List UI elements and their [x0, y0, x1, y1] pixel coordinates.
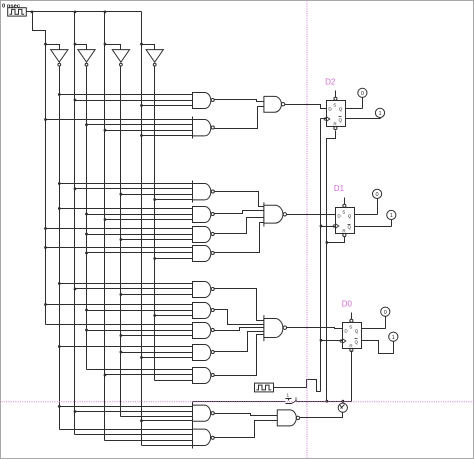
- wire D1.Qbar: [355, 226, 392, 228]
- nand gate GB: [193, 429, 215, 445]
- wire G4 input 3 from phase3: [105, 219, 193, 221]
- inverter U1: [51, 50, 68, 66]
- wire G4 out to G13: [215, 211, 264, 214]
- junction reset net bottom: [326, 400, 329, 403]
- clock generator CLK1: [8, 8, 27, 16]
- junction rail at x104.5: [104, 11, 107, 14]
- nand gate G11: [193, 368, 215, 384]
- wire G11 input 2 from phase3: [105, 374, 193, 376]
- nand gate G8: [193, 303, 215, 319]
- nand gate G5: [193, 227, 215, 243]
- junction G1 input 3: [140, 104, 143, 107]
- inverter U4: [146, 50, 163, 66]
- nand gate GA: [193, 405, 215, 421]
- wire G14 out to D0.D: [287, 328, 343, 329]
- wire D1.Q: [355, 214, 378, 216]
- wire D2.Qbar: [346, 118, 381, 120]
- junction G4 input 1: [58, 207, 61, 210]
- wire G7 input 2 from phase2: [75, 288, 193, 290]
- junction G8 input 3: [153, 314, 156, 317]
- junction G11 input 2: [104, 374, 107, 377]
- junction G3 input 2: [74, 187, 77, 190]
- wire G6 input 3 from phase4 inverted: [155, 258, 193, 260]
- wire G10 input 3 from phase4: [142, 357, 193, 359]
- junction G3 input 1: [58, 182, 61, 185]
- wire switch drop to GB: [192, 402, 194, 449]
- wire G3 input 2 from phase2: [75, 188, 193, 190]
- junction G6 input 3: [153, 257, 156, 260]
- svg-text:Q: Q: [355, 339, 359, 344]
- wire D0 clock tap: [321, 340, 343, 342]
- probe P2 value 1: [375, 108, 384, 117]
- junction G4 input 2: [85, 213, 88, 216]
- junction G2 input 2: [85, 123, 88, 126]
- svg-text:0: 0: [295, 397, 298, 402]
- junction clock net D1: [320, 225, 323, 228]
- nand gate G9: [193, 323, 215, 339]
- junction G3 input 4: [153, 198, 156, 201]
- inverter U3: [112, 50, 129, 66]
- wire D2.Q: [346, 108, 363, 110]
- wire bus phase4: [141, 45, 143, 446]
- wire G3 input 4 from phase4 inverted: [155, 199, 193, 201]
- wire G11 input 1 from phase2 inverted: [87, 369, 193, 371]
- inverter U2: [78, 50, 95, 66]
- wire drop phase3: [104, 12, 106, 45]
- junction G4 input 3: [104, 218, 107, 221]
- junction G7 input 2: [74, 288, 77, 291]
- wire G9 input 3 from phase3 inverted: [121, 335, 193, 337]
- wire probe P1 stem: [362, 98, 364, 109]
- wire G9 input 2 from phase2 inverted: [87, 330, 193, 332]
- junction G7 input 1: [58, 282, 61, 285]
- svg-text:Q: Q: [348, 213, 352, 218]
- wire D0.Q: [362, 328, 386, 330]
- wire D0.Qbar: [362, 341, 394, 354]
- nand gate G12: [264, 96, 285, 112]
- wire G3 out to G13: [215, 192, 264, 207]
- junction G5 input 1: [44, 227, 47, 230]
- junction G5 input 3: [120, 238, 123, 241]
- wire G1 input 1 from phase1 inverted: [60, 94, 193, 96]
- wire G10 input 2 from phase3 inverted: [121, 352, 193, 354]
- wire clock net vertical: [320, 119, 322, 392]
- wire probe P4 stem: [391, 220, 393, 227]
- wire bus phase2 inverted: [86, 67, 88, 370]
- label 0 nsec: [2, 4, 21, 10]
- wire G2 input 3 from phase3: [105, 130, 193, 132]
- wire G6 out to G13: [215, 223, 264, 253]
- wire CLK2 to clock net: [274, 380, 321, 392]
- wire G1 input 2 from phase2: [75, 100, 193, 102]
- nand gate G3: [193, 181, 215, 203]
- nand gate G14: [264, 315, 287, 341]
- svg-text:S: S: [342, 209, 345, 214]
- label D1: [334, 184, 345, 193]
- wire G9 input 1 from phase1: [46, 324, 193, 326]
- wire G2 input 2 from phase2 inverted: [87, 124, 193, 126]
- junction stub phase1: [44, 43, 47, 46]
- junction stub phase2: [74, 43, 77, 46]
- svg-text:S: S: [333, 102, 336, 107]
- wire bus phase3 inverted: [120, 67, 122, 417]
- wire D1 reset tap: [327, 237, 345, 243]
- junction G3 input 3: [120, 193, 123, 196]
- wire G6 input 1 from phase1: [46, 247, 193, 249]
- wire GB input 4 from phase4: [142, 445, 193, 447]
- flip-flop D0: [340, 313, 361, 352]
- wire GA input 2 from phase2: [75, 411, 193, 413]
- junction G2 input 4: [140, 134, 143, 137]
- junction G1 input 1: [58, 93, 61, 96]
- wire G4 input 2 from phase2 inverted: [87, 214, 193, 216]
- page break vertical: [306, 2, 308, 459]
- svg-text:1: 1: [378, 111, 381, 117]
- wire stub to inverter U1: [46, 45, 60, 50]
- junction stub phase3: [104, 43, 107, 46]
- junction G10 input 3: [140, 356, 143, 359]
- junction rail at x74.5: [74, 11, 77, 14]
- wire G9 out to G14: [215, 328, 264, 331]
- wire probe P3 stem: [377, 199, 379, 215]
- nand gate G6: [193, 246, 215, 262]
- wire drop phase4: [141, 12, 143, 45]
- wire bus phase2: [74, 45, 76, 435]
- wire G13 out to D1.D: [287, 214, 336, 216]
- wire GC out to probe: [300, 413, 343, 418]
- wire G10 input 1 from phase1 inverted: [60, 346, 193, 348]
- wire G12 out to D2.D: [285, 105, 327, 109]
- junction G6 input 2: [85, 252, 88, 255]
- wire D1 clock tap: [321, 226, 336, 228]
- junction G2 input 1: [44, 118, 47, 121]
- switch SW1: [286, 392, 298, 403]
- junction G2 input 3: [104, 129, 107, 132]
- svg-text:D1: D1: [334, 184, 345, 193]
- wire probe P5 stem: [385, 317, 387, 329]
- wire bus phase3: [104, 45, 106, 441]
- wire staircase drop phase1: [33, 12, 46, 45]
- junction stub phase4: [140, 43, 143, 46]
- junction probe P7: [342, 400, 345, 403]
- wire G6 input 2 from phase2 inverted: [87, 252, 193, 254]
- junction reset net D1: [326, 241, 329, 244]
- label D0: [342, 299, 353, 308]
- page break horizontal: [2, 401, 474, 403]
- svg-text:0: 0: [376, 192, 379, 198]
- wire G3 input 1 from phase1 inverted: [60, 183, 193, 185]
- wire clock rail: [33, 11, 142, 13]
- junction G10 input 1: [58, 345, 61, 348]
- wire G5 input 3 from phase3 inverted: [121, 239, 193, 241]
- junction GA input 4: [140, 419, 143, 422]
- wire G1 out to G12: [215, 100, 264, 102]
- wire G4 input 1 from phase1 inverted: [60, 208, 193, 210]
- wire G2 input 4 from phase4: [142, 135, 193, 137]
- wire G8 out to G14: [215, 310, 264, 325]
- junction G1 input 2: [74, 99, 77, 102]
- junction G9 input 2: [85, 329, 88, 332]
- wire CLK1 output: [27, 11, 33, 13]
- nand gate G4: [193, 207, 215, 223]
- wire G8 input 1 from phase1: [46, 304, 193, 306]
- wire bus phase4 inverted: [154, 67, 156, 381]
- wire GB out to GC: [215, 421, 278, 438]
- nand gate G7: [193, 282, 215, 298]
- wire G5 input 1 from phase1: [46, 228, 193, 230]
- probe P5 value 0: [381, 307, 390, 316]
- wire GB input 1 from phase1 inverted: [60, 429, 193, 431]
- junction GA input 1: [58, 405, 61, 408]
- wire GB input 2 from phase2: [75, 434, 193, 436]
- wire GB input 3 from phase3: [105, 440, 193, 442]
- svg-text:1: 1: [287, 392, 290, 397]
- wire G7 input 3 from phase3 inverted: [121, 294, 193, 296]
- flip-flop D1: [333, 198, 354, 237]
- wire G2 out to G12: [215, 107, 264, 129]
- wire stub to inverter U4: [142, 45, 155, 50]
- wire bus phase1: [45, 45, 47, 325]
- svg-text:1: 1: [392, 335, 395, 341]
- probe P7 needle: [338, 403, 347, 412]
- nand gate G10: [193, 345, 215, 361]
- svg-text:1: 1: [390, 213, 393, 219]
- wire G2 input 1 from phase1: [46, 119, 193, 121]
- wire stub to inverter U3: [105, 45, 121, 50]
- wire G1 input 3 from phase4: [142, 105, 193, 107]
- probe P3 value 0: [373, 189, 382, 198]
- nand gate G13: [264, 202, 287, 226]
- wire probe P7 stub: [342, 402, 344, 404]
- junction G10 input 2: [120, 351, 123, 354]
- junction G5 input 2: [85, 233, 88, 236]
- wire G5 out to G13: [215, 218, 264, 234]
- wire G11 input 3 from phase4 inverted: [155, 380, 193, 382]
- svg-text:D0: D0: [342, 299, 353, 308]
- wire G8 input 2 from phase2 inverted: [87, 310, 193, 312]
- wire bus phase1 inverted: [59, 67, 61, 430]
- wire GA out to GC: [215, 414, 278, 416]
- junction rail at x31.5: [31, 11, 34, 14]
- junction G8 input 1: [44, 303, 47, 306]
- wire G3 input 3 from phase3 inverted: [121, 194, 193, 196]
- probe P4 value 1: [387, 210, 396, 219]
- wire stub to inverter U2: [75, 45, 87, 50]
- wire GA input 4 from phase4: [142, 420, 193, 422]
- wire G8 input 3 from phase4 inverted: [155, 315, 193, 317]
- nand gate G2: [193, 117, 215, 139]
- nand gate GC: [277, 410, 299, 426]
- probe P6 value 1: [389, 332, 398, 341]
- wire reset to GB branch: [193, 401, 286, 403]
- wire G5 input 2 from phase2 inverted: [87, 234, 193, 236]
- wire G7 input 1 from phase1 inverted: [60, 283, 193, 285]
- wire G11 out to G14: [215, 335, 264, 376]
- flip-flop D2: [324, 91, 345, 130]
- svg-text:Q: Q: [339, 117, 343, 122]
- junction GA input 2: [74, 410, 77, 413]
- wire probe P2 stem: [380, 118, 382, 119]
- wire D2 reset run: [327, 131, 336, 402]
- junction G6 input 1: [44, 246, 47, 249]
- wire GA input 3 from phase3 inverted: [121, 416, 193, 418]
- clock generator CLK2: [255, 383, 274, 392]
- probe P1 value 0: [358, 88, 367, 97]
- svg-text:0: 0: [384, 310, 387, 316]
- svg-text:0: 0: [361, 91, 364, 97]
- wire D0 reset drop: [351, 351, 353, 402]
- svg-text:Q: Q: [348, 224, 352, 229]
- svg-text:Q: Q: [339, 106, 343, 111]
- svg-text:Q: Q: [355, 328, 359, 333]
- junction clock net D0: [320, 339, 323, 342]
- junction G8 input 2: [85, 309, 88, 312]
- junction G7 input 3: [120, 293, 123, 296]
- wire D2 clock tap: [321, 118, 327, 120]
- wire G7 out to G14: [215, 289, 264, 321]
- wire G10 out to G14: [215, 332, 264, 352]
- wire drop phase2: [74, 12, 76, 45]
- wire reset horizontal: [297, 401, 352, 403]
- junction G9 input 3: [120, 334, 123, 337]
- svg-text:D2: D2: [325, 78, 336, 87]
- nand gate G1: [193, 93, 215, 109]
- wire GA input 1 from phase1 inverted: [60, 406, 193, 408]
- label D2: [325, 78, 336, 87]
- svg-text:S: S: [349, 324, 352, 329]
